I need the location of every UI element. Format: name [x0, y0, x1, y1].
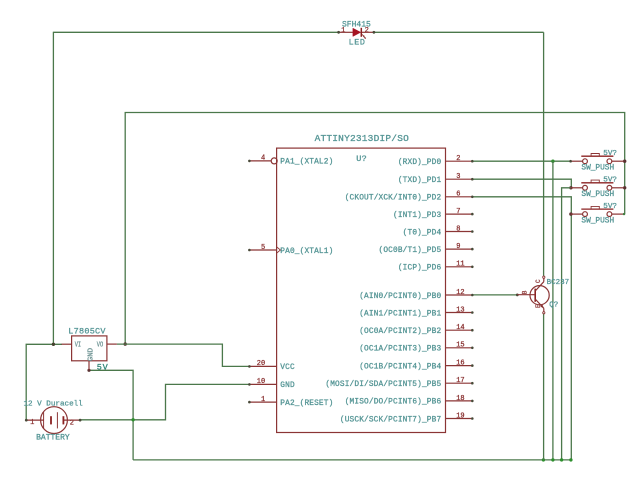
push button switch S3 SW_PUSH	[571, 206, 624, 216]
switch S1 left pin end dot	[569, 160, 572, 163]
svg-text:U?: U?	[356, 154, 367, 164]
IC pin 11 (ICP)_PD6	[398, 261, 474, 273]
wire: VO to IC VCC pin	[117, 344, 250, 366]
svg-text:SW_PUSH: SW_PUSH	[581, 165, 614, 173]
wire: bottom ground bus y=459.9	[133, 459, 571, 461]
IC pin 4 PA1_(XTAL2)	[248, 155, 333, 167]
svg-text:6: 6	[456, 191, 460, 199]
IC pin 10 GND	[248, 378, 295, 390]
junction ground bus x=552.9	[551, 458, 554, 461]
wire: S2 net jog and riser x=561.6 to ground bus	[562, 188, 571, 460]
svg-text:1: 1	[341, 27, 345, 35]
wire: 5V rail from regulator VO up and across to switches right side	[125, 113, 625, 345]
junction ground bus x=543.4	[542, 458, 545, 461]
svg-text:(CKOUT/XCK/INT0)_PD2: (CKOUT/XCK/INT0)_PD2	[345, 195, 442, 203]
svg-text:20: 20	[257, 360, 265, 368]
IC pin 12 (AIN0/PCINT0)_PB0	[359, 289, 473, 301]
IC pin 13 (AIN1/PCINT1)_PB1	[359, 306, 473, 318]
battery pin end dot 2	[79, 419, 82, 422]
svg-text:13: 13	[456, 306, 464, 314]
junction (552.9,161.2)	[551, 160, 554, 163]
svg-text:(MOSI/DI/SDA/PCINT5)_PB5: (MOSI/DI/SDA/PCINT5)_PB5	[325, 381, 441, 389]
svg-text:E: E	[535, 304, 542, 308]
push button switch S1 SW_PUSH	[571, 154, 624, 164]
svg-text:PA1_(XTAL2): PA1_(XTAL2)	[280, 159, 333, 167]
wire: battery+ to regulator VI	[26, 344, 62, 420]
svg-text:1: 1	[261, 396, 265, 404]
IC pin 20 VCC	[248, 360, 295, 372]
transistor Q? BC237 (NPN)	[517, 276, 549, 314]
svg-text:9: 9	[456, 243, 460, 251]
regulator pin GND lead	[88, 361, 90, 370]
battery BAT 12V Duracell	[26, 407, 80, 434]
svg-text:GND: GND	[87, 347, 95, 361]
svg-text:C: C	[535, 279, 542, 283]
IC pin 17 (MOSI/DI/SDA/PCINT5)_PB5	[325, 377, 473, 389]
svg-text:2: 2	[365, 27, 369, 35]
svg-text:PA2_(RESET): PA2_(RESET)	[280, 400, 333, 408]
wire: IC pin 2 to switch S1 left contact	[472, 160, 570, 162]
svg-text:VI: VI	[75, 341, 82, 349]
svg-text:14: 14	[456, 324, 464, 332]
svg-text:1: 1	[30, 419, 34, 427]
svg-text:(T0)_PD4: (T0)_PD4	[403, 229, 442, 237]
IC pin 9 (OC0B/T1)_PD5	[379, 243, 474, 255]
svg-text:SW_PUSH: SW_PUSH	[581, 218, 614, 226]
junction ground bus x=570.9	[569, 458, 572, 461]
wire: top net from battery+ through LED to transistor collector (horizontal y=32.3)	[53, 32, 543, 276]
svg-text:8: 8	[456, 225, 460, 233]
svg-text:VO: VO	[97, 341, 104, 349]
wire: IC pin 3 to switch S2 left contact	[472, 179, 571, 188]
wire: left border battery+ riser x=53.4	[52, 32, 54, 345]
IC pin 1 PA2_(RESET)	[248, 396, 333, 408]
regulator pin VO	[107, 343, 117, 345]
svg-text:17: 17	[456, 377, 464, 385]
svg-text:(ICP)_PD6: (ICP)_PD6	[398, 265, 442, 273]
regulator pin VI	[62, 343, 72, 345]
IC pin 6 (CKOUT/XCK/INT0)_PD2	[345, 191, 474, 203]
svg-text:(OC1B/PCINT4)_PB4: (OC1B/PCINT4)_PB4	[359, 363, 441, 371]
junction 5V rail / S1 right (624.7,161.2)	[623, 160, 626, 163]
svg-text:3: 3	[456, 173, 460, 181]
svg-text:5V?: 5V?	[603, 203, 617, 211]
junction at regulator GND pin (89,370.3)	[87, 369, 90, 372]
junction base pin end (517.3,294.7)	[516, 294, 519, 297]
svg-text:10: 10	[257, 378, 265, 386]
IC pin 19 (USCK/SCK/PCINT7)_PB7	[340, 412, 474, 424]
wire: regulator GND down to battery- node	[89, 370, 133, 460]
svg-text:11: 11	[456, 261, 464, 269]
svg-text:LED: LED	[349, 37, 366, 47]
svg-text:L7805CV: L7805CV	[68, 327, 106, 337]
junction 5V rail / S2 right (624.7,187.8)	[623, 186, 626, 189]
junction ground bus x=561.6	[560, 458, 563, 461]
IC pin 15 (OC1A/PCINT3)_PB3	[359, 342, 473, 354]
junction at VO node (125.2,344.1)	[124, 342, 127, 345]
LED D1 SFH415	[339, 28, 374, 39]
IC pin 2 (RXD)_PD0	[398, 155, 474, 167]
svg-text:PA0_(XTAL1): PA0_(XTAL1)	[280, 248, 333, 256]
IC pin 5 PA0_(XTAL1)	[248, 244, 333, 256]
svg-text:(OC1A/PCINT3)_PB3: (OC1A/PCINT3)_PB3	[359, 346, 441, 354]
svg-text:GND: GND	[280, 382, 295, 390]
IC pin 16 (OC1B/PCINT4)_PB4	[359, 360, 473, 372]
svg-text:ATTINY2313DIP/SO: ATTINY2313DIP/SO	[315, 133, 410, 144]
junction at VI node (53.4,344.3)	[52, 343, 55, 346]
IC pin 14 (OC0A/PCINT2)_PB2	[359, 324, 473, 336]
svg-text:7: 7	[456, 208, 460, 216]
battery pin end dot 1	[25, 419, 28, 422]
svg-text:(TXD)_PD1: (TXD)_PD1	[398, 177, 442, 185]
svg-text:SW_PUSH: SW_PUSH	[581, 191, 614, 199]
svg-text:(USCK/SCK/PCINT7)_PB7: (USCK/SCK/PCINT7)_PB7	[340, 416, 442, 424]
svg-text:(MISO/DO/PCINT6)_PB6: (MISO/DO/PCINT6)_PB6	[345, 399, 442, 407]
svg-text:(AIN1/PCINT1)_PB1: (AIN1/PCINT1)_PB1	[359, 310, 441, 318]
svg-text:VCC: VCC	[280, 364, 295, 372]
svg-text:12: 12	[456, 289, 464, 297]
wire: S1 net riser x=552.9 to ground bus	[552, 161, 554, 460]
svg-text:4: 4	[261, 155, 265, 163]
LED pin end dot 2 (373.9,32.3)	[373, 31, 376, 34]
IC pin 7 (INT1)_PD3	[393, 208, 474, 220]
switch S3 right pin end dot	[623, 213, 625, 215]
wire: battery- to IC GND pin	[80, 384, 249, 419]
IC pin 18 (MISO/DO/PCINT6)_PB6	[345, 395, 474, 407]
IC U? ATTINY2313DIP/SO body	[277, 148, 446, 432]
svg-text:Q?: Q?	[549, 301, 558, 309]
wire: IC pin 12 to transistor base	[472, 294, 517, 296]
svg-text:2: 2	[70, 419, 74, 427]
svg-text:(INT1)_PD3: (INT1)_PD3	[393, 212, 441, 220]
LED pin end dot 1 (338.6,32.3)	[337, 31, 340, 34]
push button switch S2 SW_PUSH	[571, 180, 624, 190]
svg-text:5V: 5V	[97, 363, 109, 373]
wire: transistor emitter to ground bus	[543, 313, 545, 460]
IC pin 3 (TXD)_PD1	[398, 173, 474, 185]
wire: IC pin 6 to switch S3 left contact and riser to ground bus	[472, 197, 571, 460]
IC pin 8 (T0)_PD4	[403, 225, 474, 237]
svg-text:(OC0A/PCINT2)_PB2: (OC0A/PCINT2)_PB2	[359, 328, 441, 336]
svg-text:5V?: 5V?	[603, 177, 617, 185]
svg-text:15: 15	[456, 342, 464, 350]
svg-text:B: B	[522, 290, 529, 294]
svg-text:19: 19	[456, 412, 464, 420]
svg-text:(AIN0/PCINT0)_PB0: (AIN0/PCINT0)_PB0	[359, 293, 441, 301]
svg-text:BC237: BC237	[547, 279, 570, 287]
junction (570.9,214.1)	[569, 212, 572, 215]
svg-text:BATTERY: BATTERY	[36, 434, 70, 443]
svg-text:2: 2	[456, 155, 460, 163]
svg-text:12 V Duracell: 12 V Duracell	[24, 401, 84, 409]
svg-text:5V?: 5V?	[603, 150, 617, 158]
svg-text:16: 16	[456, 360, 464, 368]
svg-text:18: 18	[456, 395, 464, 403]
voltage regulator IC2 L7805CV body	[72, 336, 107, 361]
junction battery-/GND node (133.1,419.8)	[131, 418, 134, 421]
junction (570.9,187.8)	[569, 186, 572, 189]
svg-text:(OC0B/T1)_PD5: (OC0B/T1)_PD5	[379, 247, 442, 255]
svg-text:(RXD)_PD0: (RXD)_PD0	[398, 159, 442, 167]
svg-text:5: 5	[261, 244, 265, 252]
